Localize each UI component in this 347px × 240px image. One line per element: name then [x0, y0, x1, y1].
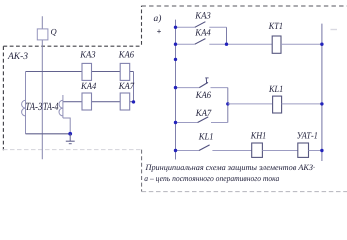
relay coil KA3 [82, 63, 92, 80]
contact KA3 rung wire right [209, 26, 226, 28]
wire KL1 rung to KH1 [212, 150, 251, 152]
svg-text:КА6: КА6 [195, 90, 211, 101]
junction dot KA3 KA4 [225, 43, 228, 46]
junction dot right bus YAT-1 [320, 149, 323, 152]
relay coil KA6 [120, 63, 130, 80]
svg-text:КА3: КА3 [194, 11, 211, 22]
svg-text:УАТ-1: УАТ-1 [297, 130, 318, 141]
main vertical wire from Q [41, 16, 43, 159]
wire row2 from TA-4 to KA4 KA7 [63, 101, 134, 103]
contact KA3 blade [195, 22, 206, 28]
label minus faint [331, 29, 338, 31]
contact KL1 rung wire left [176, 150, 200, 152]
contact KA7 blade [198, 117, 209, 123]
contact KA6 blade [199, 82, 208, 87]
CT TA-4 secondary wire [62, 95, 64, 118]
CT TA-4 winding arcs [59, 100, 63, 116]
wire KL1 to right bus [282, 103, 322, 105]
junction dot bus KA6 [174, 86, 177, 89]
svg-text:КА4: КА4 [80, 81, 96, 92]
svg-text:КА4: КА4 [194, 27, 211, 38]
contact KA6 rung wire left [176, 87, 200, 89]
relay coil KT1 [272, 36, 281, 53]
wire row1 corner down to junction [133, 72, 135, 103]
svg-text:а): а) [154, 14, 162, 24]
enclosure a) left dashed edge [141, 150, 143, 192]
svg-text:а – цепь постоянного оперативн: а – цепь постоянного оперативного тока [144, 174, 279, 183]
relay coil KL1 [273, 96, 282, 113]
CT TA-3 secondary wire [25, 72, 27, 134]
wire tap to KL1 [228, 103, 273, 105]
svg-text:Q: Q [51, 26, 57, 36]
svg-text:КН1: КН1 [250, 130, 266, 141]
wire KA6 KA7 vertical [227, 88, 229, 123]
enclosure AK-3 left dashed edge [2, 46, 4, 150]
left bus wire [175, 20, 177, 160]
svg-text:KL1: KL1 [268, 84, 283, 95]
contact KA7 rung wire left [176, 122, 198, 124]
wire KA3 down to KA4 rung [226, 27, 228, 44]
wire KA4 rung to KT1 [209, 43, 272, 45]
enclosure a) top dashed edge [142, 5, 347, 7]
junction dot bus KA4 [174, 43, 177, 46]
junction dot bus KA7 [174, 121, 177, 124]
svg-text:КА6: КА6 [118, 50, 134, 61]
svg-text:КА3: КА3 [79, 50, 95, 61]
bottom wire to ground junction [26, 133, 71, 135]
trip coil YAT-1 [298, 143, 309, 157]
CT TA-4 step wire [63, 118, 70, 134]
breaker Q [37, 29, 48, 40]
junction dot row2 right [132, 100, 135, 103]
svg-text:ТА-3: ТА-3 [25, 101, 42, 113]
svg-text:КА7: КА7 [118, 81, 135, 92]
junction dot ground [68, 132, 72, 136]
svg-text:КА7: КА7 [195, 108, 213, 119]
contact KA6 rung wire right [211, 87, 228, 89]
junction dot bus KL1 [174, 149, 177, 152]
junction dot KA6 KA7 tap [226, 102, 229, 105]
right bus wire [321, 24, 323, 161]
svg-text:АК-3: АК-3 [7, 51, 28, 62]
relay coil KA4 [82, 93, 92, 110]
junction dot right bus KL1 [320, 102, 323, 105]
svg-text:+: + [157, 27, 162, 36]
contact KA4 rung wire left [176, 43, 195, 45]
wire row1 from TA-3 to KA3 KA6 [26, 71, 134, 73]
enclosure AK-3 bottom dashed edge [3, 149, 142, 151]
wire KH1 to YAT-1 [262, 150, 297, 152]
contact KA3 rung wire left [176, 26, 195, 28]
svg-text:КТ1: КТ1 [268, 21, 283, 32]
junction dot right bus KT1 [320, 43, 323, 46]
contact KA4 blade [195, 39, 206, 45]
wire KT1 to right bus [281, 43, 322, 45]
indicator relay KH1 [252, 143, 263, 157]
enclosure step dashed vertical [141, 6, 143, 45]
enclosure AK-3 top dashed edge [3, 45, 141, 47]
contact KA7 rung wire right [211, 122, 228, 124]
svg-text:КL1: КL1 [198, 131, 214, 142]
enclosure a) bottom dashed edge [142, 191, 347, 193]
contact KL1 blade [199, 145, 210, 151]
relay coil KA7 [120, 93, 130, 110]
wire YAT-1 to right bus [309, 150, 322, 152]
junction dot bus spare [174, 58, 177, 61]
junction dot bus KA3 [174, 26, 177, 29]
svg-text:ТА-4: ТА-4 [43, 101, 59, 113]
CT TA-3 winding arcs [22, 100, 26, 116]
contact KA6 latch tick [205, 78, 207, 84]
svg-text:Принципиальная схема защиты эл: Принципиальная схема защиты элементов АК… [144, 163, 315, 172]
ground symbol [69, 134, 71, 141]
